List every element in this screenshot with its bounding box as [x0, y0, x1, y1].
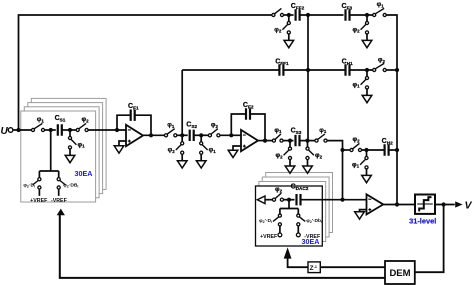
- switch top row 1: [272, 8, 284, 16]
- wire op-amp1 output: [143, 134, 164, 136]
- wire V to DEM input: [415, 205, 444, 273]
- node stage3 left: [288, 139, 292, 143]
- svg-text:CF3: CF3: [342, 3, 353, 10]
- switch phi1 S1 input sampling: [31, 116, 44, 131]
- op-amp integrator 1: [126, 125, 143, 146]
- switch phi1 to ground row2 right: [352, 70, 368, 95]
- wire CH2 to output column: [389, 149, 397, 151]
- wire: [300, 140, 315, 142]
- svg-text:CF1: CF1: [128, 103, 139, 110]
- switch phi2 DAC2: [272, 186, 283, 201]
- wire: [194, 134, 209, 136]
- switch phi1 stage3: [272, 127, 283, 142]
- node summing output: [395, 202, 399, 206]
- capacitor CF3: [342, 3, 353, 21]
- node CS2 right: [199, 133, 203, 137]
- svg-text:CFF1: CFF1: [275, 58, 289, 65]
- wire DAC1 split bar: [39, 170, 58, 172]
- svg-text:φ1: φ1: [209, 147, 217, 154]
- DAC2 input marker triangle: [257, 196, 265, 204]
- capacitor CDAC2: [291, 184, 309, 206]
- wire DEM to Z-1: [320, 266, 385, 268]
- arrow into DAC1: [57, 209, 65, 216]
- wire: [350, 14, 373, 16]
- capacitor CH1: [342, 58, 353, 75]
- switch phi2 to integrator 2: [208, 122, 220, 137]
- switch phi2'*Di to +VREF (DAC2): [259, 209, 282, 237]
- node CF2 tap: [229, 133, 233, 137]
- wire summing node vertical: [342, 150, 344, 200]
- output arrowhead: [455, 201, 462, 207]
- svg-text:CS2: CS2: [186, 122, 197, 129]
- switch phi1 to ground stage2 right: [200, 135, 217, 160]
- wire: [265, 199, 272, 201]
- switch phi2'*Dbi to -VREF (DAC2): [296, 209, 322, 237]
- wire to op-amp 1: [88, 129, 126, 131]
- svg-text:-VREF: -VREF: [51, 198, 68, 204]
- node summing branch top: [340, 148, 344, 152]
- node summing input junction: [340, 198, 344, 202]
- svg-text:φ2: φ2: [168, 147, 176, 154]
- svg-text:30EA: 30EA: [75, 169, 93, 178]
- node output V: [442, 202, 446, 206]
- switch phi2 to integrator 1: [76, 116, 89, 131]
- wire summing output to quantizer: [383, 204, 415, 206]
- wire op-amp2 output: [258, 140, 272, 142]
- svg-text:φ1: φ1: [352, 161, 360, 168]
- terminal +VREF circle: [278, 233, 282, 237]
- capacitor CF2 feedback loop: [231, 114, 246, 135]
- svg-text:U: U: [1, 126, 9, 137]
- svg-text:φ2: φ2: [352, 26, 360, 33]
- switch phi1 row1 out: [373, 1, 387, 16]
- svg-text:φ2·DBi: φ2·DBi: [63, 182, 78, 188]
- wire: [62, 129, 77, 131]
- terminal -VREF circle: [296, 233, 300, 237]
- wire DAC2 branch down: [288, 200, 290, 209]
- svg-text:30EA: 30EA: [302, 237, 320, 246]
- switch phi2 to ground stage3 right: [306, 141, 323, 166]
- arrow into DAC2: [284, 247, 292, 258]
- switch phi1 stage3 out: [315, 127, 327, 142]
- switch phi1 to ground at CH2 left: [352, 150, 368, 175]
- switch phi1 to ground (CS1 bottom plate): [68, 130, 85, 155]
- svg-text:+VREF: +VREF: [260, 234, 278, 240]
- wire row2 from stage2 node: [182, 69, 279, 71]
- input terminal: [8, 128, 13, 133]
- wire summing output column: [396, 70, 398, 205]
- wire to op-amp 2: [220, 134, 241, 136]
- wire feedforward U to top row: [19, 15, 272, 130]
- wire: [45, 129, 56, 131]
- wire CF1 to output: [135, 115, 151, 135]
- wire: [386, 69, 397, 71]
- ground op-amp1 + input: [119, 141, 126, 146]
- svg-text:φ2'·Di: φ2'·Di: [259, 218, 272, 224]
- capacitor CH2: [382, 138, 393, 156]
- node row2 right: [365, 68, 369, 72]
- capacitor CS1: [55, 115, 66, 136]
- wire DEM direct to DAC1: [60, 215, 385, 278]
- DAC1 30-element array stacked box (back 3): [24, 98, 106, 197]
- switch phi2 to ground stage3 left: [275, 141, 291, 166]
- switch phi2 summing: [350, 136, 362, 151]
- DEM box: [385, 261, 415, 284]
- node CS1 right plate: [68, 128, 72, 132]
- node row1 column tap: [306, 13, 310, 17]
- wire to summing branch: [327, 141, 342, 149]
- quantizer 31-level box: [415, 195, 435, 214]
- svg-text:φ2: φ2: [211, 122, 219, 129]
- wire input to switch: [13, 129, 31, 131]
- svg-text:φ2·Di: φ2·Di: [23, 182, 35, 188]
- node CH2 right on output column: [395, 148, 399, 152]
- node row2 column tap: [306, 68, 310, 72]
- svg-text:φ1: φ1: [377, 1, 385, 8]
- svg-text:φ2: φ2: [315, 152, 323, 159]
- svg-text:+VREF: +VREF: [30, 198, 48, 204]
- capacitor CF1 feedback loop: [117, 115, 131, 130]
- ground op-amp2 + input: [233, 146, 241, 150]
- ground summing op-amp + input: [360, 210, 367, 212]
- svg-text:CH2: CH2: [382, 138, 393, 145]
- node op-amp2 output: [263, 139, 267, 143]
- wire row2 drop to stage2 node: [181, 70, 183, 134]
- node CDAC2 left: [287, 198, 291, 202]
- svg-text:φ1: φ1: [352, 81, 360, 88]
- svg-text:φ2: φ2: [378, 56, 386, 63]
- node row2 on output column: [395, 68, 399, 72]
- node CS3 right / feedforward column: [305, 139, 309, 143]
- op-amp summing amplifier: [367, 194, 384, 214]
- wire Z-1 to DAC2 arrow: [288, 258, 308, 267]
- switch phi2 row2 out: [373, 56, 387, 71]
- node row1 CFF2 left: [287, 13, 291, 17]
- svg-text:CS3: CS3: [291, 128, 302, 135]
- wire to summing op-amp: [343, 199, 367, 201]
- switch phi2 to ground row1 left: [274, 15, 290, 40]
- wire quantizer output: [435, 204, 455, 206]
- switch phi2 to ground stage2 left: [168, 135, 184, 160]
- svg-text:φ1: φ1: [167, 122, 175, 129]
- node DAC1 tap: [49, 128, 53, 132]
- node CF1 tap: [115, 128, 119, 132]
- wire: [283, 69, 345, 71]
- wire feedforward column: [307, 15, 309, 141]
- svg-text:φ2: φ2: [352, 136, 360, 143]
- capacitor CS2: [186, 122, 197, 141]
- svg-text:φ2: φ2: [274, 26, 282, 33]
- node input junction: [16, 128, 20, 132]
- node row1 right: [365, 13, 369, 17]
- switch phi2*Di to +VREF: [23, 171, 41, 196]
- svg-text:31-level: 31-level: [409, 217, 436, 226]
- wire row1 to output column: [386, 15, 397, 70]
- wire: [350, 69, 373, 71]
- svg-text:CF2: CF2: [243, 102, 254, 109]
- wire: [177, 134, 188, 136]
- switch phi2*DBi to -VREF: [57, 171, 78, 196]
- DAC2 30-element array front box: [256, 186, 323, 246]
- svg-text:CFF2: CFF2: [291, 3, 305, 10]
- svg-text:DEM: DEM: [389, 268, 410, 279]
- wire: [300, 14, 344, 16]
- wire: [284, 14, 294, 16]
- wire: [343, 149, 350, 151]
- switch phi2 to ground row1 right: [352, 15, 368, 40]
- capacitor CS3: [291, 128, 302, 147]
- wire: [283, 140, 293, 142]
- wire DAC1 vertical: [50, 130, 52, 171]
- delay block Z-1: [308, 262, 320, 273]
- node CH2 left: [364, 148, 368, 152]
- capacitor CFF1: [275, 58, 289, 75]
- wire CF2 to output: [250, 114, 265, 141]
- wire CDAC2 to summing node: [301, 199, 343, 201]
- op-amp integrator 2: [241, 130, 258, 151]
- svg-text:CH1: CH1: [342, 58, 353, 65]
- wire: [284, 199, 295, 201]
- switch phi1 stage2: [164, 122, 176, 137]
- node op-amp1 output: [149, 133, 153, 137]
- capacitor CFF2: [291, 3, 305, 21]
- wire: [362, 149, 385, 151]
- node stage2 left: [180, 133, 184, 137]
- svg-text:φ1: φ1: [274, 127, 282, 134]
- svg-text:φ2'·Dbi: φ2'·Dbi: [306, 218, 322, 224]
- wire DAC2 split bar: [280, 208, 298, 210]
- DAC1 30-element array front box: [21, 111, 96, 202]
- svg-text:φ2: φ2: [275, 152, 283, 159]
- svg-text:V: V: [465, 199, 473, 211]
- capacitor CF1: [128, 103, 139, 121]
- svg-text:φ1: φ1: [319, 127, 327, 134]
- DAC2 30-element array stacked box (back 3): [259, 173, 333, 242]
